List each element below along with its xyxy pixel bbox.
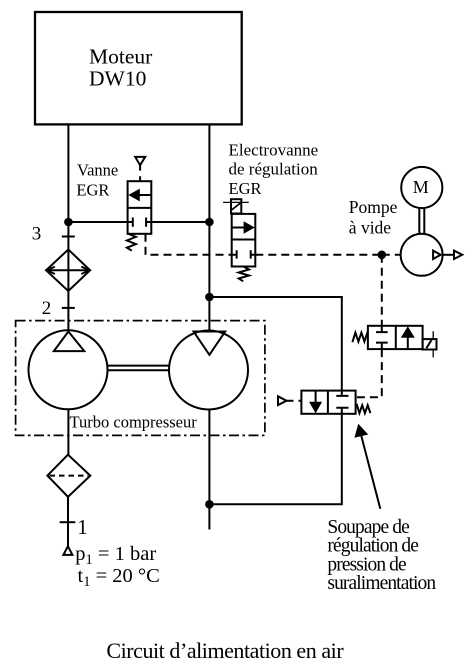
turbine triangle bbox=[194, 332, 226, 355]
svg-text:2: 2 bbox=[42, 298, 52, 319]
solenoid bypass valve blocked port bottom bbox=[376, 343, 388, 350]
air filter dashed inner line bbox=[50, 475, 89, 477]
soupape valve arrow head bbox=[309, 402, 322, 414]
wire: horizontal EGR line left segment bbox=[68, 221, 127, 223]
cooler diamond (EGR cooler) bbox=[46, 250, 90, 292]
electrovanne solenoid box bbox=[231, 199, 241, 213]
soupape valve blocked port top bbox=[336, 391, 348, 396]
svg-text:à vide: à vide bbox=[349, 218, 392, 238]
tick mark node 2 bbox=[62, 307, 75, 309]
svg-text:suralimentation: suralimentation bbox=[327, 573, 436, 594]
soupape valve arrow stem bbox=[315, 391, 317, 403]
soupape valve body bbox=[301, 391, 355, 414]
cooler arrow barbs right bbox=[81, 267, 89, 274]
svg-text:Circuit d’alimentation en air: Circuit d’alimentation en air bbox=[106, 638, 344, 663]
soupape valve spring bbox=[356, 405, 371, 413]
electrovanne spring bbox=[239, 267, 249, 282]
wire: air filter down to intake bbox=[67, 497, 69, 546]
solenoid bypass valve body bbox=[368, 326, 423, 349]
junction dot bypass bottom bbox=[205, 500, 214, 509]
svg-text:1: 1 bbox=[77, 515, 88, 539]
electrovanne solenoid diagonal bbox=[231, 203, 241, 211]
wire: bypass lower run from soupape valve bbox=[209, 414, 341, 505]
engine block Moteur DW10 bbox=[35, 12, 242, 124]
junction dot at EGR line left bbox=[64, 218, 73, 227]
solenoid bypass valve blocked port top bbox=[376, 326, 388, 332]
pilot line: vanne EGR to electrovanne (dashed) bbox=[146, 234, 232, 255]
shaft double line bbox=[108, 366, 170, 371]
solenoid bypass valve solenoid pin bbox=[432, 331, 434, 357]
svg-text:Turbo compresseur: Turbo compresseur bbox=[70, 413, 198, 432]
compressor circle bbox=[29, 330, 108, 409]
annotation arrow to soupape valve bbox=[361, 435, 380, 509]
svg-text:EGR: EGR bbox=[229, 179, 262, 198]
svg-text:3: 3 bbox=[32, 223, 42, 244]
wire: right main line from engine to turbine bbox=[208, 124, 210, 330]
svg-text:t1 = 20 °C: t1 = 20 °C bbox=[78, 565, 160, 590]
wire: turbine outlet down bbox=[208, 409, 210, 529]
solenoid bypass valve divider bbox=[395, 326, 397, 349]
vanne EGR flow arrow head bbox=[128, 189, 140, 202]
electrovanne blocked port left bbox=[232, 250, 237, 258]
tick mark node 1 bbox=[60, 521, 76, 523]
vacuum pump shaft bbox=[419, 208, 424, 234]
electrovanne cell divider bbox=[232, 239, 256, 241]
vacuum pump motor circle bbox=[401, 167, 442, 208]
vanne EGR exhaust triangle bbox=[135, 157, 145, 165]
wire: bypass upper run to soupape valve bbox=[209, 297, 341, 391]
electrovanne blocked port right bbox=[251, 250, 256, 258]
solenoid bypass valve arrow stem bbox=[407, 337, 409, 349]
wire: horizontal EGR line right segment bbox=[151, 221, 209, 223]
solenoid bypass valve solenoid diagonal bbox=[426, 340, 431, 348]
svg-text:Vanne: Vanne bbox=[77, 160, 118, 179]
electrovanne flow arrow stem bbox=[232, 227, 244, 229]
tick mark node 3 bbox=[62, 236, 75, 238]
soupape valve exhaust triangle bbox=[278, 396, 287, 405]
intake triangle (atmosphere) bbox=[63, 546, 72, 555]
air filter diamond bbox=[47, 455, 90, 497]
wire: compressor outlet down to air filter bbox=[67, 409, 69, 455]
solenoid bypass valve spring bbox=[352, 333, 368, 343]
compressor triangle bbox=[54, 332, 85, 352]
pilot line: junction down to solenoid valve (dashed) bbox=[381, 255, 383, 326]
vacuum pump exhaust line bbox=[443, 254, 454, 256]
svg-text:Pompe: Pompe bbox=[349, 197, 398, 217]
vacuum pump inner triangle bbox=[433, 251, 441, 259]
vanne EGR blocked port right bbox=[146, 218, 151, 227]
vanne EGR spring bbox=[127, 234, 136, 251]
junction dot at EGR line right bbox=[205, 218, 214, 227]
vanne EGR body bbox=[128, 181, 152, 234]
vanne EGR flow arrow stem bbox=[139, 194, 151, 196]
electrovanne flow arrow head bbox=[244, 221, 255, 234]
vacuum pump exhaust triangle bbox=[454, 251, 462, 259]
annotation arrow head bbox=[354, 424, 368, 438]
vanne EGR blocked port left bbox=[128, 218, 133, 227]
pilot line: electrovanne to junction (dashed) bbox=[255, 254, 381, 256]
vanne EGR exhaust stem bbox=[139, 165, 141, 181]
svg-text:M: M bbox=[413, 177, 429, 197]
svg-text:Moteur: Moteur bbox=[89, 45, 152, 69]
svg-text:de régulation: de régulation bbox=[229, 160, 319, 179]
cooler arrow line bbox=[47, 269, 90, 271]
svg-text:DW10: DW10 bbox=[89, 67, 146, 91]
soupape valve divider bbox=[327, 391, 329, 414]
soupape valve blocked port bottom bbox=[336, 408, 348, 414]
turbo compressor dashed-dotted boundary box bbox=[16, 321, 265, 436]
electrovanne solenoid flag bbox=[223, 201, 249, 203]
vacuum pump circle bbox=[401, 234, 443, 276]
turbine circle bbox=[169, 331, 248, 410]
cooler arrow barbs left bbox=[47, 267, 55, 274]
svg-text:Electrovanne: Electrovanne bbox=[229, 141, 319, 160]
solenoid bypass valve solenoid box bbox=[423, 339, 437, 349]
junction dot bypass top bbox=[205, 293, 214, 302]
soupape valve exhaust dash bbox=[287, 400, 302, 402]
wire: left main line from engine through cooler to compressor bbox=[67, 124, 69, 330]
pilot line: junction to vacuum pump (dashed) bbox=[382, 254, 401, 256]
svg-text:EGR: EGR bbox=[76, 180, 109, 199]
junction dot vacuum pilot bbox=[378, 251, 387, 260]
pilot line: solenoid valve to soupape valve (dashed) bbox=[356, 349, 382, 397]
vanne EGR cell divider bbox=[128, 207, 152, 209]
solenoid bypass valve arrow head bbox=[401, 326, 415, 338]
electrovanne body bbox=[232, 214, 256, 267]
